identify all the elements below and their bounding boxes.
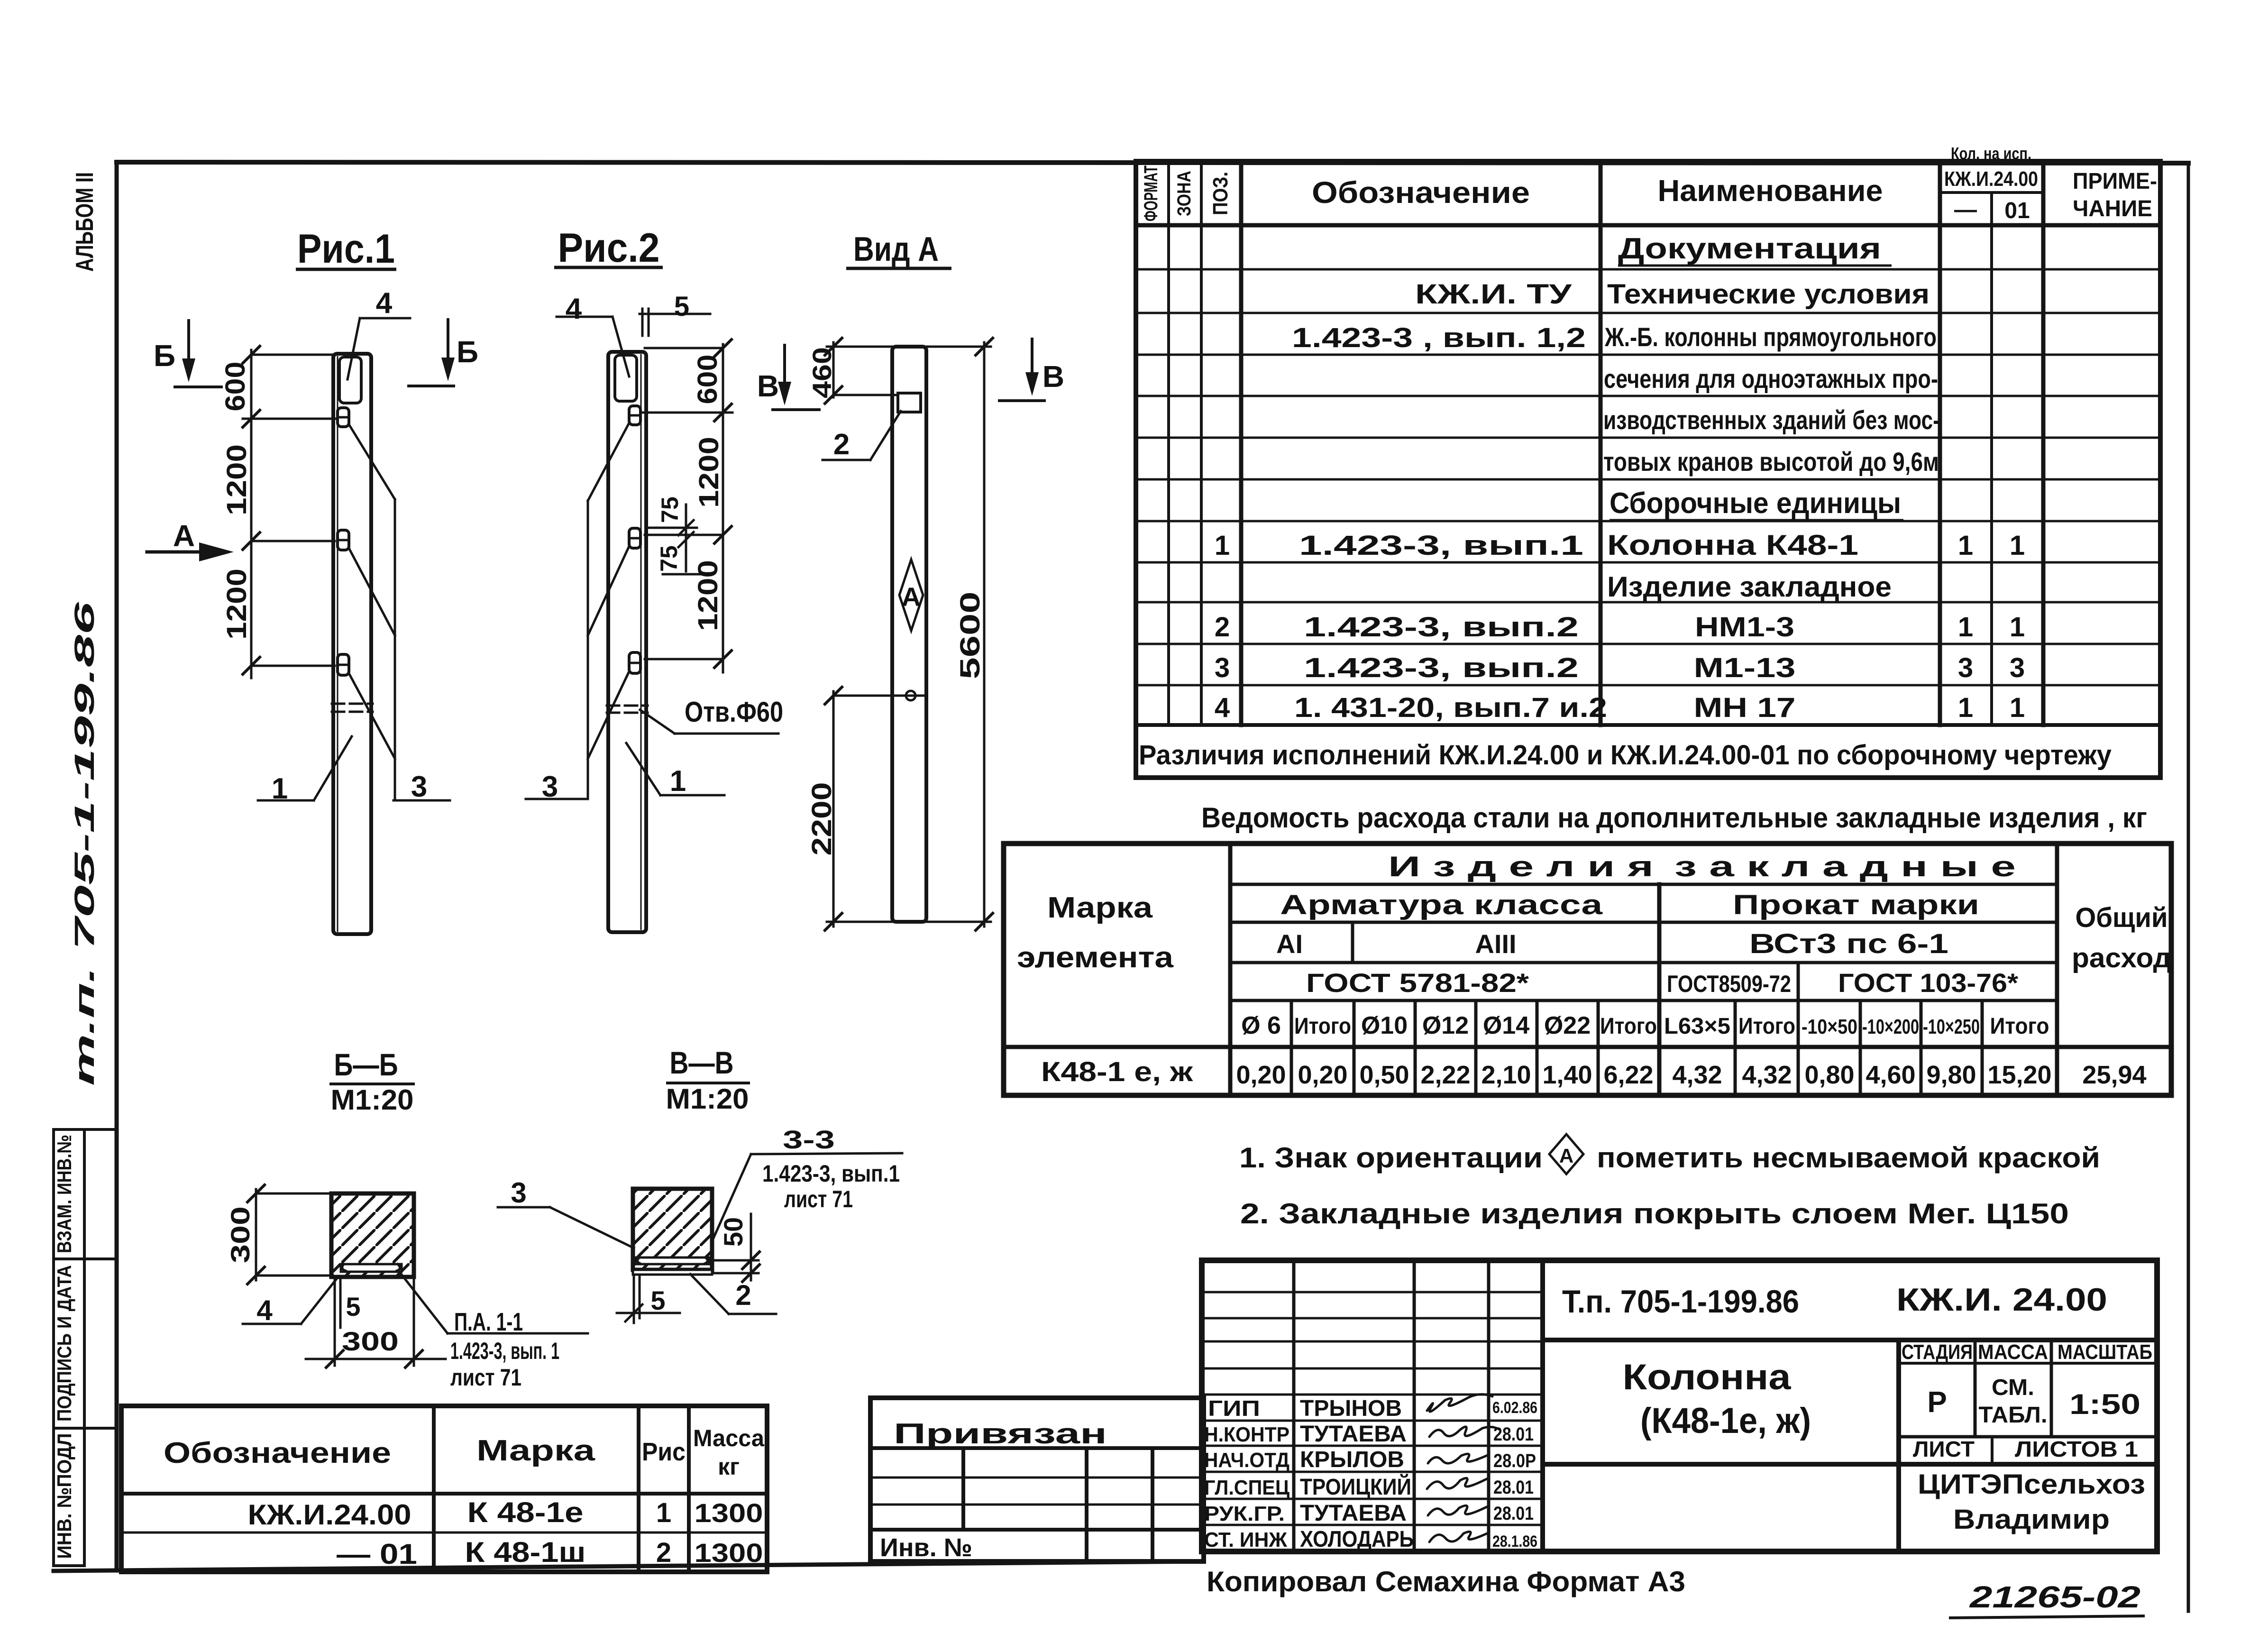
svg-text:товых кранов высотой до 9,6м: товых кранов высотой до 9,6м: [1603, 447, 1939, 477]
svg-text:М1-13: М1-13: [1694, 652, 1796, 683]
svg-text:1200: 1200: [221, 444, 252, 515]
svg-text:1. Знак ориентации: 1. Знак ориентации: [1239, 1142, 1543, 1174]
spec table verticals: [1167, 161, 1170, 725]
svg-text:Арматура класса: Арматура класса: [1280, 890, 1603, 920]
svg-text:0,20: 0,20: [1298, 1061, 1347, 1089]
section mark В right: [999, 339, 1044, 401]
svg-text:1: 1: [1958, 612, 1973, 642]
svg-text:КЖ.И. 24.00: КЖ.И. 24.00: [1896, 1282, 2107, 1318]
svg-text:1: 1: [1215, 530, 1230, 561]
svg-text:т.п. 705-1-199.86: т.п. 705-1-199.86: [69, 601, 100, 1086]
svg-text:В—В: В—В: [670, 1045, 734, 1080]
svg-text:ТРЫНОВ: ТРЫНОВ: [1300, 1396, 1402, 1421]
svg-text:Рис.1: Рис.1: [297, 226, 395, 272]
hole dashed fig1: [332, 703, 373, 705]
svg-text:1: 1: [2010, 692, 2025, 723]
svg-text:ГЛ.СПЕЦ: ГЛ.СПЕЦ: [1204, 1476, 1289, 1499]
signature scribbles: [1427, 1394, 1499, 1542]
svg-text:Различия исполнений КЖ.И.24.00: Различия исполнений КЖ.И.24.00 и КЖ.И.24…: [1139, 740, 2112, 771]
svg-text:ТУТАЕВА: ТУТАЕВА: [1300, 1501, 1407, 1526]
svg-text:АIII: АIII: [1475, 929, 1516, 959]
section mark А left: [147, 551, 227, 554]
svg-text:1200: 1200: [693, 560, 723, 631]
svg-text:3: 3: [511, 1177, 526, 1209]
svg-text:1.423-3, вып.1: 1.423-3, вып.1: [762, 1160, 900, 1187]
svg-text:28.01: 28.01: [1493, 1477, 1534, 1498]
svg-text:ЗОНА: ЗОНА: [1174, 171, 1195, 216]
svg-text:Ø10: Ø10: [1361, 1012, 1408, 1039]
svg-text:-10×250: -10×250: [1923, 1015, 1980, 1038]
svg-text:К48-1 е, ж: К48-1 е, ж: [1041, 1056, 1193, 1087]
hole circle view A: [906, 691, 915, 700]
note diamond А: [1549, 1134, 1583, 1174]
svg-text:Технические условия: Технические условия: [1607, 279, 1930, 310]
svg-text:3: 3: [542, 771, 558, 803]
column body fig2: [608, 352, 646, 932]
svg-text:Ø22: Ø22: [1544, 1012, 1591, 1039]
svg-text:В: В: [1043, 359, 1064, 394]
svg-text:Владимир: Владимир: [1953, 1504, 2110, 1535]
svg-text:(К48-1е, ж): (К48-1е, ж): [1640, 1401, 1811, 1441]
svg-text:Инв. №: Инв. №: [880, 1533, 972, 1562]
svg-text:Изделие закладное: Изделие закладное: [1607, 571, 1892, 603]
svg-text:изводственных зданий без мос-: изводственных зданий без мос-: [1603, 405, 1940, 435]
leader 2 В-В: [690, 1274, 776, 1314]
svg-text:28.1.86: 28.1.86: [1492, 1533, 1537, 1551]
svg-text:3: 3: [411, 771, 427, 803]
svg-text:2. Закладные изделия покры: 2. Закладные изделия покрыть слоем Мег. …: [1240, 1198, 2069, 1230]
svg-text:Б: Б: [457, 335, 478, 369]
svg-text:П.А. 1-1: П.А. 1-1: [454, 1308, 523, 1336]
svg-text:М1:20: М1:20: [331, 1084, 414, 1116]
svg-text:Итого: Итого: [1600, 1014, 1657, 1039]
svg-text:1,40: 1,40: [1542, 1061, 1592, 1089]
dim chain fig2 right: [640, 344, 732, 672]
base plate П.А.1-1: [243, 1185, 588, 1367]
svg-text:Копировал Семахина Формат: Копировал Семахина Формат А3: [1207, 1566, 1685, 1597]
section mark Б right: [409, 320, 454, 386]
dim 300 horizontal Б-Б: [306, 1280, 446, 1366]
svg-text:1.423-3, вып.2: 1.423-3, вып.2: [1304, 652, 1579, 683]
svg-text:расход: расход: [2072, 943, 2171, 973]
svg-text:2,22: 2,22: [1420, 1061, 1470, 1089]
svg-text:4: 4: [1215, 692, 1230, 723]
bottom plate 2 В-В: [633, 1270, 712, 1275]
hole dashed fig2: [607, 705, 648, 707]
svg-text:1: 1: [272, 772, 288, 805]
svg-text:600: 600: [692, 355, 723, 404]
svg-text:ЛИСТОВ 1: ЛИСТОВ 1: [2015, 1437, 2138, 1461]
svg-text:600: 600: [220, 362, 251, 412]
svg-text:1300: 1300: [695, 1538, 763, 1568]
svg-text:Ведомость расхода стали на доп: Ведомость расхода стали на дополнительны…: [1201, 802, 2147, 834]
svg-text:ВСт3 пс 6-1: ВСт3 пс 6-1: [1749, 928, 1948, 959]
dim chain fig1: [243, 350, 338, 678]
svg-text:А: А: [1559, 1145, 1573, 1167]
svg-text:Отв.Ф60: Отв.Ф60: [685, 696, 783, 728]
svg-text:6,22: 6,22: [1603, 1061, 1653, 1089]
leader lines to 3 fig1: [258, 318, 450, 800]
svg-text:50: 50: [718, 1217, 748, 1247]
leader 4 Б-Б: [243, 1279, 337, 1324]
svg-text:АI: АI: [1276, 929, 1303, 959]
bottom-left table box: [121, 1406, 767, 1572]
svg-text:1: 1: [1958, 692, 1973, 723]
svg-text:1.423-3 , вып. 1,2: 1.423-3 , вып. 1,2: [1292, 322, 1586, 353]
svg-text:лист 71: лист 71: [450, 1364, 521, 1391]
svg-text:2,10: 2,10: [1481, 1061, 1531, 1089]
svg-text:Общий: Общий: [2076, 902, 2168, 933]
svg-text:Ø12: Ø12: [1422, 1012, 1469, 1039]
svg-text:лист 71: лист 71: [784, 1186, 853, 1212]
svg-text:ТУТАЕВА: ТУТАЕВА: [1300, 1422, 1407, 1447]
S=5 gap dim fig2: [640, 313, 710, 315]
title area lines: [1543, 1338, 2157, 1342]
svg-text:Колонна: Колонна: [1623, 1357, 1792, 1397]
svg-text:2: 2: [735, 1279, 751, 1311]
svg-text:К 48-1е: К 48-1е: [467, 1496, 584, 1528]
svg-text:5: 5: [346, 1292, 360, 1322]
svg-text:Кол. на исп.: Кол. на исп.: [1951, 144, 2031, 163]
hatched square В-В: [633, 1189, 712, 1270]
svg-text:пометить несмываемой краской: пометить несмываемой краской: [1597, 1142, 2100, 1174]
svg-text:ЧАНИЕ: ЧАНИЕ: [2073, 196, 2152, 221]
svg-text:—: —: [1954, 197, 1977, 222]
svg-text:0,80: 0,80: [1804, 1061, 1854, 1089]
svg-text:ХОЛОДАРЬ: ХОЛОДАРЬ: [1300, 1527, 1414, 1552]
svg-text:1200: 1200: [221, 569, 252, 640]
svg-text:КЖ.И.24.00: КЖ.И.24.00: [248, 1499, 412, 1531]
svg-text:Колонна К48-1: Колонна К48-1: [1607, 529, 1858, 561]
leader 3-3 В-В: [712, 1153, 902, 1242]
svg-text:КРЫЛОВ: КРЫЛОВ: [1300, 1447, 1404, 1472]
svg-text:Б: Б: [154, 339, 175, 373]
embedded plate fig1 c: [338, 654, 349, 675]
svg-text:3-3: 3-3: [783, 1126, 835, 1154]
svg-text:5: 5: [650, 1285, 665, 1315]
svg-text:МАСШТАБ: МАСШТАБ: [2058, 1340, 2152, 1364]
svg-text:460: 460: [807, 347, 837, 398]
orientation diamond: [899, 560, 923, 631]
svg-text:L63×5: L63×5: [1664, 1014, 1730, 1039]
привязан box: [870, 1398, 1204, 1561]
svg-text:Документация: Документация: [1618, 232, 1881, 265]
svg-text:Рис: Рис: [642, 1438, 686, 1466]
steel horizontals: [1230, 883, 2057, 886]
label 2 leader: [823, 411, 901, 460]
svg-text:-10×50: -10×50: [1802, 1015, 1857, 1038]
steel table outer box: [1004, 844, 2171, 1095]
svg-text:Итого: Итого: [1738, 1014, 1795, 1039]
svg-text:СТАДИЯ: СТАДИЯ: [1902, 1340, 1973, 1364]
svg-text:ГИП: ГИП: [1208, 1396, 1260, 1421]
section mark В left: [773, 345, 819, 410]
svg-text:КЖ.И.24.00: КЖ.И.24.00: [1944, 167, 2038, 191]
svg-text:5600: 5600: [955, 592, 986, 679]
svg-text:25,94: 25,94: [2082, 1061, 2146, 1089]
embedded plate fig1 b: [338, 530, 349, 550]
svg-text:Итого: Итого: [1990, 1014, 2049, 1039]
svg-text:300: 300: [225, 1206, 255, 1263]
svg-text:Н.КОНТР: Н.КОНТР: [1204, 1423, 1289, 1446]
svg-text:ИНВ. №ПОДЛ: ИНВ. №ПОДЛ: [53, 1433, 75, 1559]
signature table verticals: [1292, 1260, 1296, 1551]
svg-text:1200: 1200: [694, 437, 724, 508]
svg-text:Марка: Марка: [1047, 891, 1153, 924]
svg-text:Обозначение: Обозначение: [164, 1437, 391, 1469]
inner plate В-В: [636, 1257, 709, 1264]
svg-text:элемента: элемента: [1017, 941, 1174, 974]
svg-text:Итого: Итого: [1294, 1014, 1351, 1039]
svg-text:И з д е л и я: И з д е л и я: [1388, 851, 1654, 882]
spec header underline: [1136, 223, 2160, 228]
svg-text:1: 1: [2010, 530, 2025, 561]
recess notch 4: [339, 357, 361, 403]
column body view A: [892, 347, 926, 922]
svg-text:Наименование: Наименование: [1658, 174, 1883, 208]
svg-text:28.01: 28.01: [1493, 1503, 1534, 1524]
svg-text:15,20: 15,20: [1987, 1061, 2051, 1089]
leader П.А.1-1: [402, 1275, 588, 1333]
signature table rows: [1202, 1292, 1543, 1525]
plate 2 view A: [898, 393, 921, 412]
svg-text:1.423-3, вып.1: 1.423-3, вып.1: [1299, 530, 1583, 561]
svg-text:ЦИТЭПсельхоз: ЦИТЭПсельхоз: [1918, 1469, 2145, 1500]
embedded plate fig2 b: [629, 528, 640, 548]
recess notch 4 fig2: [615, 355, 637, 401]
svg-text:2: 2: [833, 428, 850, 461]
svg-text:ФОРМАТ: ФОРМАТ: [1141, 165, 1161, 221]
svg-text:К 48-1ш: К 48-1ш: [465, 1536, 586, 1568]
svg-text:4: 4: [256, 1294, 273, 1326]
embedded plate fig2 c: [629, 652, 640, 673]
svg-text:Прокат марки: Прокат марки: [1733, 890, 1979, 920]
svg-text:з а к л а д н ы е: з а к л а д н ы е: [1674, 851, 2016, 882]
svg-text:ПОЗ.: ПОЗ.: [1209, 172, 1232, 215]
svg-text:Рис.2: Рис.2: [558, 225, 660, 271]
svg-text:2: 2: [656, 1537, 671, 1568]
svg-text:4: 4: [376, 287, 393, 320]
svg-text:ТАБЛ.: ТАБЛ.: [1979, 1403, 2048, 1428]
svg-text:75: 75: [656, 545, 682, 572]
svg-text:РУК.ГР.: РУК.ГР.: [1204, 1502, 1285, 1525]
dims view A: [827, 342, 991, 927]
svg-text:ПРИМЕ-: ПРИМЕ-: [2073, 169, 2157, 194]
steel verticals: [1228, 844, 1233, 1095]
spec table outer box: [1136, 161, 2160, 778]
dim 300 vertical Б-Б: [256, 1189, 333, 1280]
svg-text:1.423-3, вып.2: 1.423-3, вып.2: [1304, 612, 1579, 642]
section mark Б left: [175, 321, 221, 387]
svg-text:— 01: — 01: [337, 1538, 417, 1570]
svg-text:4,32: 4,32: [1742, 1061, 1792, 1089]
spec row lines: [1136, 269, 2160, 685]
svg-text:9,80: 9,80: [1926, 1061, 1976, 1089]
svg-text:МАССА: МАССА: [1978, 1340, 2048, 1364]
svg-text:1: 1: [2010, 612, 2025, 642]
svg-text:Ø 6: Ø 6: [1241, 1012, 1281, 1039]
leader 3 into В-В: [498, 1207, 634, 1248]
svg-text:Марка: Марка: [476, 1434, 595, 1467]
svg-text:СМ.: СМ.: [1992, 1375, 2034, 1400]
left margin strip: [54, 1129, 117, 1566]
svg-text:75: 75: [657, 496, 683, 523]
svg-text:-10×200: -10×200: [1862, 1015, 1919, 1038]
svg-text:МН 17: МН 17: [1694, 692, 1796, 723]
svg-text:Ø14: Ø14: [1483, 1012, 1529, 1039]
svg-text:2: 2: [1215, 612, 1230, 642]
svg-text:28.01: 28.01: [1493, 1424, 1534, 1445]
svg-text:300: 300: [342, 1326, 399, 1356]
embedded plate fig1 a: [338, 408, 349, 427]
svg-text:Б—Б: Б—Б: [334, 1047, 398, 1082]
svg-text:4,60: 4,60: [1866, 1061, 1915, 1089]
svg-text:сечения для одноэтажных про-: сечения для одноэтажных про-: [1604, 364, 1938, 394]
svg-text:01: 01: [2004, 198, 2030, 223]
svg-text:1: 1: [1958, 530, 1973, 561]
svg-text:3: 3: [2010, 652, 2025, 683]
svg-text:В: В: [757, 369, 779, 403]
mini dim 75/75 fig2: [649, 505, 706, 574]
svg-text:28.0Р: 28.0Р: [1493, 1450, 1536, 1471]
svg-text:ПОДПИСЬ И ДАТА: ПОДПИСЬ И ДАТА: [53, 1265, 75, 1422]
svg-text:1: 1: [670, 765, 686, 798]
svg-text:0,20: 0,20: [1236, 1061, 1286, 1089]
svg-text:5: 5: [674, 291, 689, 322]
svg-text:3: 3: [1215, 652, 1230, 683]
svg-text:кг: кг: [718, 1453, 740, 1480]
svg-text:1300: 1300: [695, 1498, 763, 1528]
svg-text:ГОСТ 5781-82*: ГОСТ 5781-82*: [1306, 968, 1529, 998]
svg-text:А: А: [173, 519, 195, 553]
svg-text:ГОСТ8509-72: ГОСТ8509-72: [1667, 971, 1791, 997]
svg-text:Масса: Масса: [693, 1425, 765, 1451]
svg-text:ЛИСТ: ЛИСТ: [1913, 1437, 1975, 1461]
svg-text:СТ. ИНЖ: СТ. ИНЖ: [1204, 1528, 1287, 1551]
svg-text:ГОСТ 103-76*: ГОСТ 103-76*: [1838, 968, 2018, 998]
svg-text:Ж.-Б. колонны прямоугольного: Ж.-Б. колонны прямоугольного: [1604, 322, 1937, 352]
svg-text:АЛЬБОМ II: АЛЬБОМ II: [71, 172, 99, 272]
svg-text:Вид А: Вид А: [853, 230, 939, 268]
dim 50 В-В: [714, 1214, 759, 1280]
column body fig1: [333, 354, 371, 934]
svg-text:Р: Р: [1927, 1386, 1947, 1419]
leader Отв.Ф60: [640, 710, 778, 734]
svg-text:КЖ.И. ТУ: КЖ.И. ТУ: [1415, 279, 1572, 310]
svg-text:1. 431-20, вып.7 и.2: 1. 431-20, вып.7 и.2: [1294, 692, 1607, 723]
svg-text:4,32: 4,32: [1672, 1061, 1722, 1089]
dim 5 Б-Б: [339, 1278, 342, 1328]
svg-text:Привязан: Привязан: [894, 1418, 1107, 1450]
svg-text:НАЧ.ОТД: НАЧ.ОТД: [1204, 1449, 1289, 1472]
svg-text:0,50: 0,50: [1359, 1061, 1409, 1089]
svg-text:1.423-3, вып. 1: 1.423-3, вып. 1: [450, 1338, 559, 1364]
svg-text:1:50: 1:50: [2069, 1388, 2140, 1420]
svg-text:3: 3: [1958, 652, 1973, 683]
svg-text:6.02.86: 6.02.86: [1492, 1399, 1537, 1417]
svg-text:НМ1-3: НМ1-3: [1695, 612, 1794, 642]
svg-text:21265-02: 21265-02: [1969, 1580, 2140, 1614]
title block outer: [1202, 1260, 2157, 1551]
svg-text:Т.п. 705-1-199.86: Т.п. 705-1-199.86: [1562, 1284, 1799, 1320]
leader lines to 3 fig2: [526, 309, 724, 799]
svg-text:Обозначение: Обозначение: [1312, 175, 1530, 210]
svg-text:А: А: [902, 582, 921, 612]
svg-text:ТРОИЦКИЙ: ТРОИЦКИЙ: [1300, 1474, 1411, 1500]
svg-text:М1:20: М1:20: [666, 1083, 749, 1115]
embedded plate fig2 a: [629, 406, 640, 425]
dim 5 В-В: [617, 1276, 680, 1323]
svg-text:ВЗАМ. ИНВ.№: ВЗАМ. ИНВ.№: [53, 1135, 75, 1253]
svg-text:Сборочные единицы: Сборочные единицы: [1610, 487, 1901, 520]
svg-text:1: 1: [656, 1497, 671, 1528]
svg-text:2200: 2200: [806, 782, 837, 856]
svg-text:4: 4: [566, 293, 582, 325]
hatched square Б-Б: [331, 1193, 414, 1277]
